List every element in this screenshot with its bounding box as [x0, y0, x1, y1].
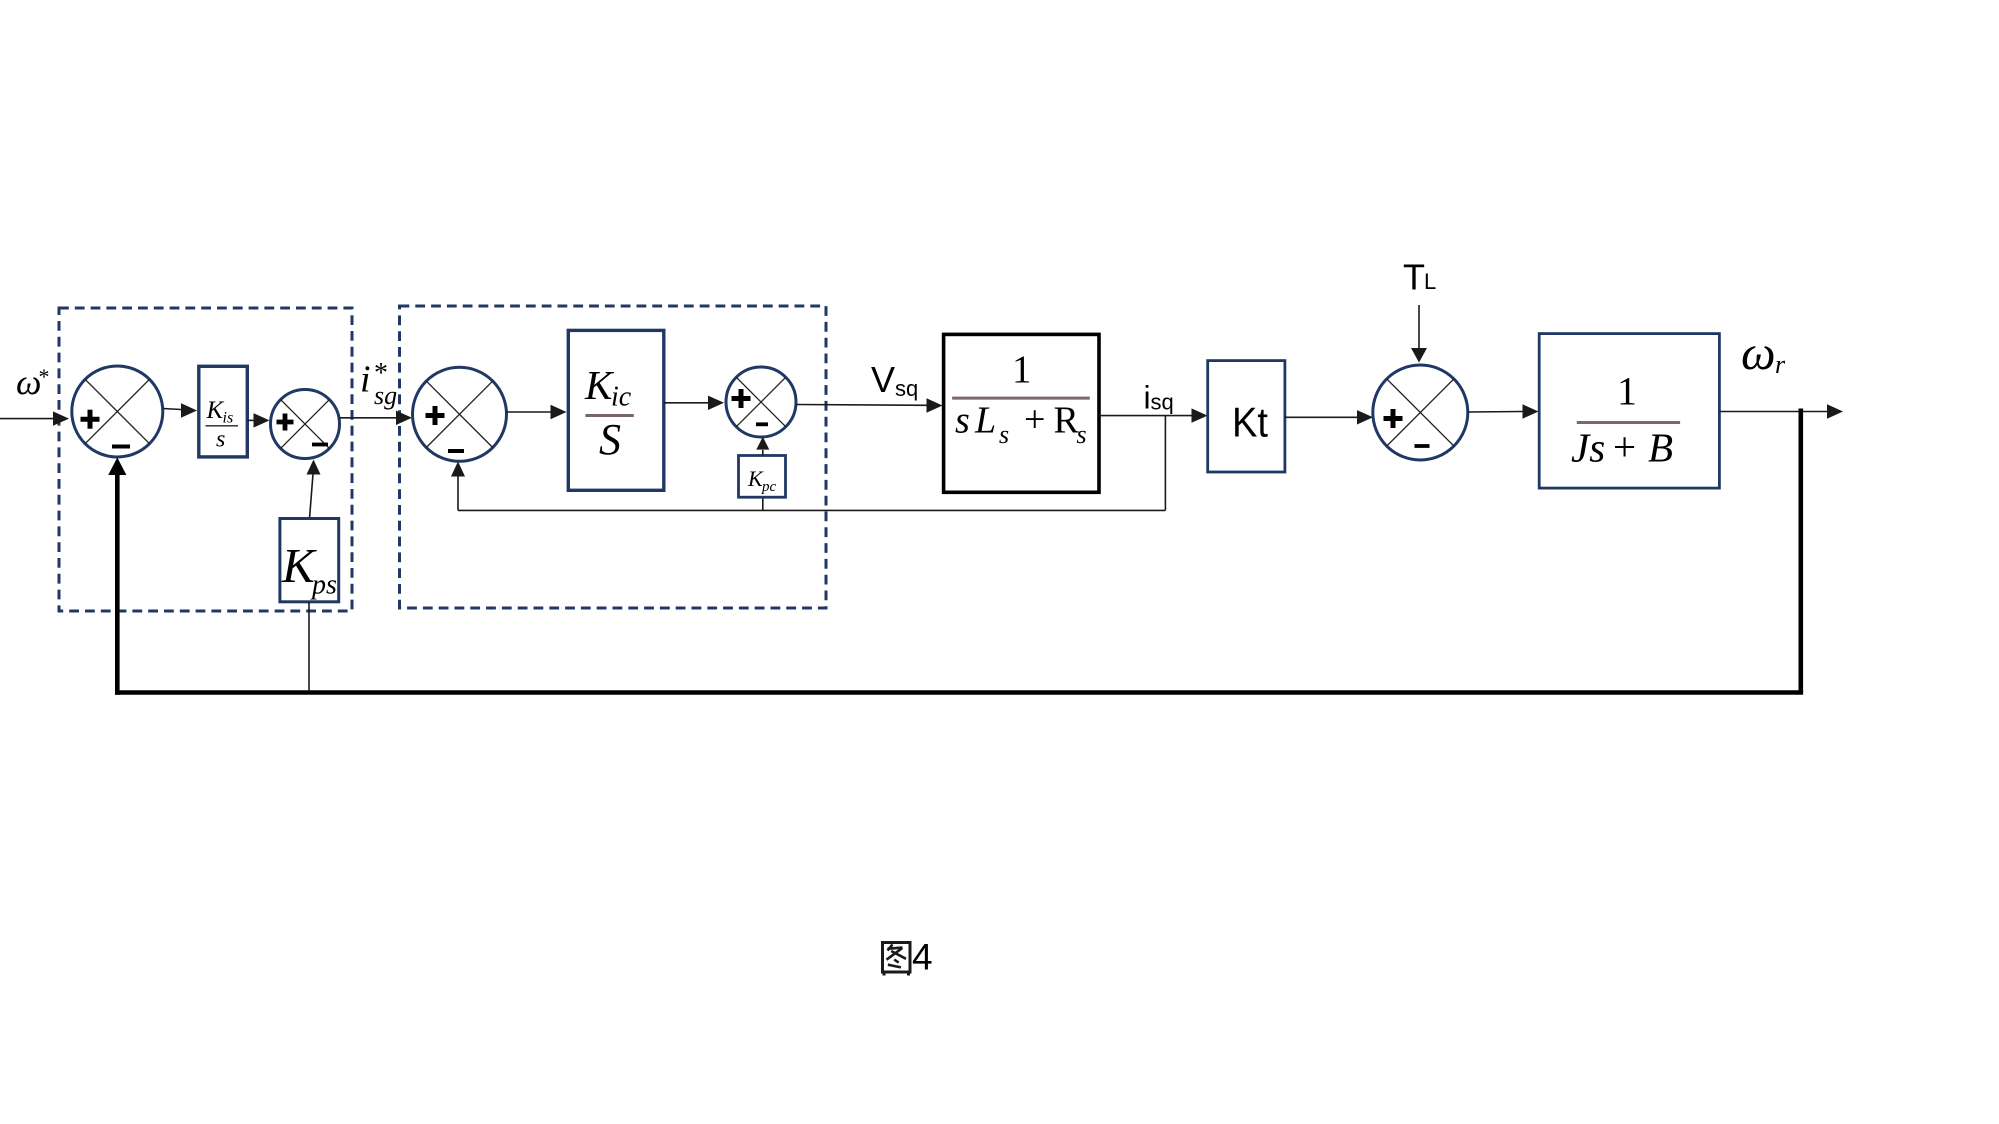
svg-text:ps: ps: [310, 570, 337, 601]
svg-text:is: is: [223, 410, 234, 427]
node i*sg wire S2 to summing junction S3: [340, 411, 413, 425]
summing junction S2: [271, 390, 340, 459]
svg-text:s: s: [216, 427, 225, 453]
wire current feedback horizontal: [458, 509, 1165, 511]
svg-text:sq: sq: [895, 376, 918, 401]
summing junction S3: [413, 367, 507, 461]
wire current feedback up to summing junction S3: [451, 462, 465, 511]
svg-text:r: r: [1775, 350, 1786, 379]
block Kps: [280, 519, 339, 602]
wire block Kis/s to summing junction S2: [247, 413, 269, 427]
node TL label: [1403, 257, 1436, 298]
caption figure 4 digit: [912, 937, 933, 978]
summing junction S5: [1373, 365, 1468, 460]
svg-text:L: L: [974, 400, 996, 442]
svg-text:pc: pc: [761, 479, 777, 495]
svg-text:+: +: [1613, 424, 1636, 470]
node Vsq wire S4 to block 1/(sLs+Rs): [796, 398, 943, 412]
dashed box current controller: [400, 306, 827, 608]
wire input to summing junction S1: [0, 411, 69, 425]
node omega_r label: [1741, 325, 1786, 380]
svg-text:1: 1: [1012, 348, 1032, 391]
wire block Kps to main feedback line: [308, 602, 310, 691]
wire current feedback to block Kpc: [762, 497, 764, 510]
wire block Kt to summing junction S5: [1285, 410, 1373, 424]
block Kis/s: [199, 366, 248, 457]
caption figure 4 glyph tu: [883, 943, 911, 976]
node isq junction on wire: [1164, 416, 1166, 511]
wire S1 to block Kis/s: [163, 403, 197, 417]
block 1/(sLs+Rs): [944, 334, 1099, 492]
svg-text:+: +: [1024, 399, 1045, 441]
svg-text:T: T: [1403, 257, 1425, 298]
block 1/(Js+B): [1539, 334, 1719, 489]
svg-text:i: i: [360, 359, 371, 401]
block Kpc: [739, 456, 786, 498]
node isq wire block 1/(sLs+Rs) to block Kt: [1099, 408, 1208, 422]
svg-text:B: B: [1648, 425, 1673, 471]
svg-text:S: S: [599, 415, 621, 464]
wire TL to summing junction S5: [1411, 305, 1427, 363]
block Kic/S: [568, 330, 664, 490]
svg-text:Js: Js: [1571, 425, 1605, 471]
node isq label: [1144, 380, 1174, 416]
svg-text:ic: ic: [611, 382, 632, 413]
svg-text:s: s: [955, 400, 970, 442]
summing junction S1: [72, 366, 163, 457]
svg-text:L: L: [1424, 269, 1436, 294]
wire block Kic/S to summing junction S4: [664, 396, 724, 410]
wire S5 to block 1/(Js+B): [1468, 404, 1539, 418]
node i*sg label: [360, 358, 397, 410]
node omega* input label: [16, 362, 50, 402]
svg-text:V: V: [871, 359, 895, 400]
block Kt: [1208, 361, 1285, 472]
wire speed feedback to summing junction S2 via Kps: [307, 460, 321, 519]
summing junction S4: [726, 367, 796, 437]
wire feedback main loop thick: [108, 409, 1803, 695]
wire S3 to block Kic/S: [506, 405, 566, 419]
svg-text:1: 1: [1617, 369, 1637, 414]
wire block Kpc to summing junction S4: [756, 437, 769, 456]
svg-text:sq: sq: [1151, 390, 1174, 415]
wire output from block 1/(Js+B): [1719, 404, 1843, 418]
svg-text:*: *: [39, 364, 50, 389]
svg-text:ω: ω: [1741, 325, 1776, 380]
svg-text:4: 4: [912, 937, 933, 978]
svg-text:s: s: [999, 420, 1009, 449]
svg-text:sg: sg: [374, 381, 397, 410]
node Vsq label: [871, 359, 918, 401]
svg-text:Kt: Kt: [1232, 399, 1268, 446]
svg-text:s: s: [1077, 420, 1087, 449]
dashed box speed controller: [59, 308, 352, 611]
